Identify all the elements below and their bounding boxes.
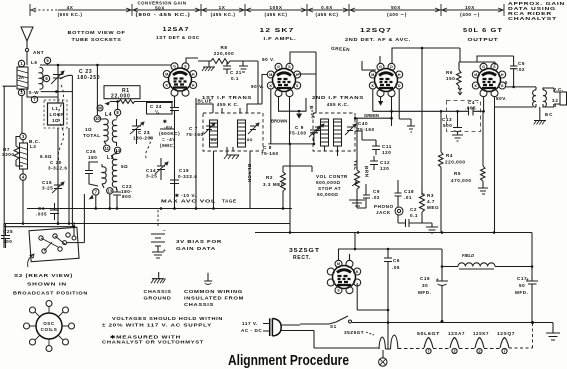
capacitor C2 0.1 — [410, 207, 418, 218]
capacitor C9 .02 — [363, 189, 380, 204]
svg-text:GREEN: GREEN — [364, 113, 379, 118]
svg-text:L6: L6 — [31, 60, 37, 65]
wire osc section verticals — [27, 65, 118, 224]
svg-text:TOTAL: TOTAL — [83, 133, 101, 138]
gain label 50X — [387, 5, 407, 17]
capacitor C11 120 — [372, 140, 392, 155]
wire 35Z5 plate loop — [339, 233, 389, 261]
trimmer C23 — [43, 69, 100, 84]
svg-text:10X: 10X — [465, 5, 475, 10]
svg-text:4X: 4X — [67, 5, 74, 10]
svg-text:COMMON WIRING: COMMON WIRING — [184, 289, 243, 294]
gang link dashes — [58, 85, 63, 161]
coil L4 — [83, 109, 121, 146]
svg-text:3-25: 3-25 — [42, 186, 53, 191]
svg-text:(400 ∼): (400 ∼) — [387, 12, 407, 17]
svg-text:.01: .01 — [404, 195, 412, 200]
trimmer C27 180-200 — [130, 119, 154, 144]
volume control VOL CONTR 500,000 — [316, 163, 365, 206]
svg-text:C 24: C 24 — [150, 104, 162, 109]
antenna section enclosure — [3, 75, 73, 226]
svg-text:RECT.: RECT. — [293, 255, 311, 261]
svg-text:0.1: 0.1 — [231, 76, 239, 81]
svg-text:G: G — [482, 65, 485, 69]
svg-text:.005: .005 — [465, 106, 476, 111]
svg-text:180-250: 180-250 — [77, 75, 100, 81]
svg-text:75-160: 75-160 — [261, 151, 279, 156]
svg-text:C11: C11 — [382, 144, 392, 149]
wire IF2 to 12SQ7 — [325, 56, 381, 156]
svg-text:12SA7: 12SA7 — [163, 27, 190, 33]
gain label conversion gain 50X — [136, 1, 191, 18]
field coil — [458, 253, 532, 269]
svg-text:C40: C40 — [358, 121, 368, 126]
svg-text:L1: L1 — [52, 106, 58, 111]
svg-text:SHOWN IN: SHOWN IN — [27, 282, 67, 287]
svg-text:R4: R4 — [446, 153, 453, 158]
wire 50L6 cathode — [494, 97, 496, 233]
svg-text:.05: .05 — [392, 265, 400, 270]
svg-text:BROADCAST POSITION: BROADCAST POSITION — [13, 291, 88, 296]
wire AC line upper — [281, 322, 336, 325]
svg-text:1X: 1X — [219, 5, 226, 10]
resistor R7 3300 — [2, 140, 19, 166]
dashed mount box — [447, 101, 481, 132]
svg-text:C13: C13 — [442, 117, 452, 122]
svg-text:50,000Ω: 50,000Ω — [317, 192, 338, 197]
wire IF1 to 12SK7 — [222, 75, 267, 209]
svg-text:1ST I.F TRANS: 1ST I.F TRANS — [202, 95, 252, 100]
svg-text:S1: S1 — [330, 324, 337, 329]
svg-text:L2: L2 — [30, 144, 36, 149]
tube 50L6GT U4 socket — [472, 63, 505, 96]
label 35Z5GT RECT — [289, 248, 320, 261]
svg-text:H: H — [192, 72, 195, 76]
capacitor C4 .005 — [465, 100, 479, 111]
svg-text:120: 120 — [380, 166, 389, 171]
svg-text:H: H — [296, 73, 299, 77]
svg-text:2A: 2A — [19, 75, 24, 80]
svg-text:OUTPUT: OUTPUT — [468, 37, 499, 42]
svg-text:L4: L4 — [105, 112, 112, 118]
svg-text:30: 30 — [422, 283, 428, 288]
gain scale line — [30, 4, 504, 16]
svg-text:R8: R8 — [221, 45, 228, 50]
svg-text:H: H — [398, 73, 401, 77]
capacitor C26 180 — [85, 149, 98, 186]
capacitor C25 100 — [1, 224, 13, 248]
svg-text:STOP AT: STOP AT — [318, 186, 341, 191]
svg-text:M: M — [165, 72, 168, 76]
svg-text:S-W: S-W — [29, 90, 40, 95]
svg-text:K: K — [371, 84, 374, 88]
svg-text:50L6GT: 50L6GT — [417, 331, 440, 336]
svg-text:12 SK7: 12 SK7 — [260, 28, 295, 34]
label C7 — [186, 126, 204, 137]
svg-text:C 9: C 9 — [295, 125, 304, 130]
bus AVC — [27, 208, 292, 210]
svg-text:M: M — [269, 73, 272, 77]
label C40 — [357, 121, 375, 132]
svg-text:50: 50 — [519, 283, 525, 288]
svg-text:8Ω: 8Ω — [247, 138, 253, 142]
svg-text:800: 800 — [122, 194, 131, 199]
svg-text:LOOP: LOOP — [50, 112, 65, 117]
svg-text:500: 500 — [443, 123, 452, 128]
svg-text:C 7: C 7 — [189, 126, 198, 131]
svg-text:GAIN DATA: GAIN DATA — [176, 246, 216, 251]
label 12SK7 — [260, 28, 297, 41]
svg-text:Ω: Ω — [553, 103, 556, 108]
svg-text:MEG: MEG — [427, 205, 439, 210]
svg-text:VOL CONTR: VOL CONTR — [316, 174, 348, 179]
svg-text:(9MC): (9MC) — [160, 143, 176, 148]
wire 12SQ7 plate coupling — [392, 48, 460, 186]
wire right vertical — [531, 233, 533, 267]
wire antenna top bus — [40, 64, 172, 98]
svg-text:R5: R5 — [454, 171, 461, 176]
svg-text:12SK7: 12SK7 — [473, 331, 489, 336]
svg-text:C15: C15 — [42, 180, 52, 185]
svg-text:(455 KC): (455 KC) — [264, 12, 287, 17]
svg-text:(400 ∼): (400 ∼) — [460, 12, 480, 17]
svg-text:C5: C5 — [518, 61, 525, 66]
svg-text:C12: C12 — [380, 160, 390, 165]
label S2 — [13, 273, 88, 296]
label bottom view of tube sockets — [68, 30, 126, 42]
bus B-minus upper — [4, 224, 290, 249]
svg-text:V.C.: V.C. — [553, 87, 564, 92]
svg-text:8Ω: 8Ω — [211, 138, 217, 142]
svg-text:MFD.: MFD. — [418, 290, 431, 295]
svg-text:G: G — [501, 84, 504, 88]
svg-text:D: D — [398, 84, 401, 88]
svg-text:G: G — [277, 65, 280, 69]
svg-text:✱ -10 V.: ✱ -10 V. — [175, 193, 196, 198]
trimmer C15 3-25 — [42, 180, 64, 193]
svg-text:1ST DET & OSC: 1ST DET & OSC — [156, 35, 200, 40]
svg-text:10: 10 — [95, 116, 100, 121]
svg-text:1Ω: 1Ω — [52, 118, 59, 123]
note approx gain data — [508, 1, 565, 21]
capacitor C4 series — [469, 107, 474, 116]
heater 12SQ7 — [497, 331, 515, 354]
svg-text:C16: C16 — [420, 276, 430, 281]
insulated ground symbol — [184, 273, 244, 307]
svg-text:C6: C6 — [393, 258, 400, 263]
tube 35Z5GT U5 socket — [327, 260, 360, 293]
svg-text:75-160: 75-160 — [186, 132, 204, 137]
output transformer T3 — [495, 80, 567, 117]
wire 12SQ7 cathode ground — [399, 89, 415, 132]
svg-text:CHANALYST OR VOLTOHMYST: CHANALYST OR VOLTOHMYST — [102, 340, 204, 345]
coil L5 — [89, 145, 129, 199]
node dots on buses — [57, 100, 496, 234]
svg-text:11: 11 — [104, 146, 109, 151]
svg-text:I.F AMPL.: I.F AMPL. — [264, 36, 297, 41]
capacitor C17 50 MFD — [515, 267, 538, 323]
switch S2 rear view — [4, 194, 118, 267]
svg-text:ANT: ANT — [33, 50, 44, 55]
svg-text:CHASSIS: CHASSIS — [144, 289, 172, 294]
note voltages hold — [102, 316, 223, 345]
svg-text:VOLTAGES SHOULD HOLD WITHIN: VOLTAGES SHOULD HOLD WITHIN — [112, 316, 223, 321]
svg-text:80V.: 80V. — [496, 96, 507, 101]
capacitor C1 .035 — [36, 203, 59, 220]
svg-text:JACK: JACK — [376, 210, 391, 215]
svg-text:C19: C19 — [179, 168, 189, 173]
gain label 10X — [460, 5, 480, 17]
label 12SA7 — [156, 27, 200, 40]
svg-text:12SQ7: 12SQ7 — [497, 331, 515, 336]
heater 12SA7 — [448, 331, 465, 354]
capacitor C22 180-800 — [113, 184, 132, 209]
ground AC right — [352, 323, 560, 341]
wire 12SA7 grid leads — [160, 98, 196, 209]
resistor R2 3.3 MEG — [263, 166, 286, 210]
wire 35Z5 heater tap — [387, 321, 390, 324]
svg-text:90 V.: 90 V. — [262, 57, 275, 62]
label IF1 — [202, 95, 252, 107]
svg-text:M: M — [337, 262, 340, 266]
svg-text:M: M — [371, 73, 374, 77]
svg-text:12SQ7: 12SQ7 — [360, 28, 392, 34]
osc coils socket — [24, 301, 75, 352]
svg-text:C 21: C 21 — [230, 70, 242, 75]
svg-text:50L 6 GT: 50L 6 GT — [463, 28, 503, 34]
svg-text:PHONO: PHONO — [374, 204, 394, 209]
capacitor C19 0-322.6 — [170, 168, 197, 190]
svg-text:100X: 100X — [270, 5, 283, 10]
wire left column — [6, 60, 28, 224]
svg-text:3V BIAS FOR: 3V BIAS FOR — [176, 239, 222, 244]
svg-text:± 20% WITH 117 V. AC SUPPLY: ± 20% WITH 117 V. AC SUPPLY — [102, 323, 212, 328]
svg-text:180: 180 — [88, 155, 97, 160]
label 50L6GT — [463, 28, 503, 42]
svg-text:D: D — [390, 65, 393, 69]
svg-text:MFD.: MFD. — [515, 290, 528, 295]
gain label 1X — [211, 5, 236, 17]
svg-text:C 8: C 8 — [263, 145, 272, 150]
capacitor C16 30 MFD — [418, 267, 448, 324]
switch S1 — [330, 316, 352, 329]
svg-text:(455 KC.): (455 KC.) — [211, 12, 236, 17]
svg-text:BRN: BRN — [364, 166, 369, 178]
antenna — [21, 27, 44, 60]
trimmer C14 3-25 — [146, 158, 168, 180]
svg-text:.02: .02 — [517, 67, 525, 72]
wire 12SK7 plate top — [290, 52, 316, 113]
wire heater chain — [314, 321, 534, 349]
svg-text:3-25: 3-25 — [146, 174, 157, 179]
label IF2 — [312, 95, 364, 107]
svg-text:75-160: 75-160 — [289, 131, 307, 136]
svg-text:C9: C9 — [373, 189, 380, 194]
heater 12SK7 — [473, 331, 489, 354]
svg-text:K: K — [356, 270, 359, 274]
ground output — [534, 107, 546, 125]
svg-text:150: 150 — [446, 76, 455, 81]
label C9 trimmer — [289, 125, 320, 137]
heater 50L6GT — [417, 331, 440, 354]
gain label 0.6X — [315, 5, 338, 17]
svg-text:220,000: 220,000 — [214, 51, 234, 56]
svg-text:1Ω: 1Ω — [85, 127, 92, 132]
svg-text:FIELD: FIELD — [462, 253, 474, 258]
tube 12SA7 U1 socket — [163, 63, 196, 96]
wire 35Z5 plate top line — [355, 248, 442, 250]
resistor R1 22,000 — [97, 86, 173, 111]
svg-text:.02: .02 — [372, 195, 380, 200]
svg-text:CHASSIS: CHASSIS — [184, 302, 214, 307]
svg-text:470,000: 470,000 — [451, 178, 471, 183]
svg-text:35Z5GT: 35Z5GT — [289, 248, 320, 254]
resistor R8 220,000 — [198, 45, 243, 64]
wire AC line lower — [281, 331, 314, 349]
svg-text:22,000: 22,000 — [111, 94, 131, 100]
wire avc to R2 — [283, 144, 290, 224]
svg-text:COILS: COILS — [41, 327, 58, 332]
svg-text:117 V.: 117 V. — [242, 321, 258, 326]
svg-text:GROUND: GROUND — [144, 296, 172, 301]
svg-text:500,000Ω: 500,000Ω — [316, 180, 341, 185]
svg-text:G: G — [379, 65, 382, 69]
label C8 — [261, 145, 279, 156]
svg-text:Alignment Procedure: Alignment Procedure — [228, 353, 349, 369]
svg-text:−: − — [163, 228, 166, 233]
capacitor C6 .05 — [384, 258, 400, 349]
svg-text:INSULATED FROM: INSULATED FROM — [184, 296, 244, 301]
note max avc voltage — [161, 193, 237, 204]
battery 3v bias — [151, 210, 166, 258]
svg-text:BROWN: BROWN — [271, 119, 287, 124]
power plug — [241, 318, 281, 336]
wire 12SK7 cathode — [268, 89, 315, 145]
svg-text:CHANALYST: CHANALYST — [508, 16, 557, 21]
svg-text:M: M — [98, 106, 102, 111]
note 3v bias — [176, 239, 222, 251]
svg-text:6.5Ω: 6.5Ω — [40, 154, 52, 159]
svg-text:¼: ¼ — [155, 109, 160, 115]
svg-text:50X: 50X — [155, 6, 165, 11]
wire audio line — [354, 89, 485, 126]
svg-text:.035: .035 — [36, 212, 47, 217]
capacitor C18 .01 — [395, 185, 415, 204]
svg-text:2ND DET. AF & AVC.: 2ND DET. AF & AVC. — [345, 37, 411, 42]
svg-text:TUBE SOCKETS: TUBE SOCKETS — [72, 37, 122, 42]
padder C20 — [48, 160, 67, 171]
svg-text:H: H — [501, 73, 504, 77]
resistor R4 220,000 — [439, 111, 466, 232]
svg-text:13: 13 — [107, 188, 112, 193]
antenna coil L6 — [17, 57, 51, 102]
resistor R6 — [446, 62, 462, 95]
svg-text:0-322.6: 0-322.6 — [178, 174, 197, 179]
svg-text:90 V.: 90 V. — [251, 84, 264, 89]
svg-text:455 K.C.: 455 K.C. — [327, 102, 350, 107]
svg-text:K: K — [474, 84, 477, 88]
gain label 4X — [58, 5, 83, 17]
tube 12SK7 U2 socket — [267, 63, 300, 96]
svg-text:4.7: 4.7 — [427, 199, 435, 204]
svg-text:C26: C26 — [86, 149, 96, 154]
svg-text:455 K C.: 455 K C. — [217, 102, 240, 107]
svg-text:MAX AVC VOL: MAX AVC VOL — [161, 199, 216, 204]
svg-text:C14: C14 — [146, 168, 156, 173]
svg-text:220,000: 220,000 — [445, 160, 465, 165]
svg-text:0.1: 0.1 — [410, 213, 418, 218]
wire 12SA7 plate to IF1 — [186, 58, 258, 113]
phono jack — [374, 204, 403, 215]
svg-text:C 20: C 20 — [50, 160, 62, 165]
svg-text:3300: 3300 — [2, 152, 14, 157]
svg-text:0.6X: 0.6X — [321, 5, 333, 10]
capacitor C24 — [147, 96, 180, 120]
capacitor C13 500 — [442, 111, 463, 141]
ground IF1 — [224, 147, 239, 159]
svg-text:50X: 50X — [391, 5, 401, 10]
tube 12SQ7 U3 socket — [369, 63, 402, 96]
svg-text:M: M — [474, 73, 477, 77]
wire 50L6 plate top — [459, 56, 514, 65]
svg-text:OSC: OSC — [43, 321, 55, 326]
note -6v bias — [159, 119, 180, 148]
wire detector area — [357, 118, 422, 208]
svg-text:120: 120 — [382, 150, 391, 155]
svg-text:(600KC): (600KC) — [159, 131, 180, 136]
bus B-minus lower — [255, 232, 532, 234]
svg-text:35Z5GT: 35Z5GT — [344, 330, 364, 335]
capacitor C5 .02 — [510, 56, 525, 88]
oscillator coil L2 — [20, 133, 53, 180]
capacitor C21 0.1 — [202, 61, 248, 81]
capacitor on B- line — [398, 215, 438, 233]
svg-text:AC - DC: AC - DC — [241, 328, 262, 333]
capacitor C12 120 — [370, 156, 390, 171]
svg-text:✱: ✱ — [163, 119, 168, 124]
svg-text:K: K — [165, 83, 168, 87]
label 12SQ7 — [345, 28, 411, 42]
chassis ground symbol — [144, 272, 172, 301]
svg-text:C2: C2 — [410, 207, 417, 212]
loop antenna L1 — [44, 100, 67, 128]
svg-text:R3: R3 — [427, 193, 434, 198]
svg-text:B C: B C — [545, 112, 552, 117]
svg-text:R6: R6 — [446, 70, 453, 75]
gain label 100X — [264, 5, 287, 17]
svg-text:K: K — [269, 84, 272, 88]
svg-text:H: H — [192, 83, 195, 87]
wire 35Z5 cathode — [357, 249, 458, 310]
svg-text:R2: R2 — [266, 175, 273, 180]
svg-text:G: G — [173, 65, 176, 69]
pilot lamp — [344, 330, 398, 366]
svg-text:2ND I.F TRANS: 2ND I.F TRANS — [312, 95, 364, 100]
svg-text:BLACK: BLACK — [247, 164, 252, 183]
svg-text:C18: C18 — [404, 189, 414, 194]
svg-text:(600 KC.): (600 KC.) — [58, 12, 83, 17]
svg-text:BOTTOM VIEW OF: BOTTOM VIEW OF — [68, 30, 126, 35]
svg-text:S2 (REAR VIEW): S2 (REAR VIEW) — [14, 273, 73, 278]
svg-text:12SA7: 12SA7 — [448, 331, 465, 336]
svg-text:(455 KC): (455 KC) — [315, 12, 338, 17]
IF transformer T2 — [313, 113, 356, 151]
svg-text:TAGE: TAGE — [222, 199, 237, 204]
resistor R5 470,000 — [451, 111, 488, 194]
svg-text:5Ω: 5Ω — [121, 164, 128, 169]
resistor R3 4.7 MEG — [420, 186, 440, 218]
IF transformer T1 — [203, 113, 263, 151]
